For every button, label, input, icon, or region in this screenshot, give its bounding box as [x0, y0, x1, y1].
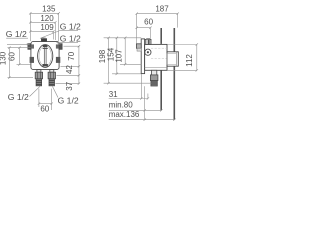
svg-text:120: 120 — [40, 14, 54, 23]
dim 198 — [98, 37, 110, 85]
dim 60 left — [7, 47, 20, 66]
right screw — [56, 57, 60, 63]
label G 1/2 bottom-left — [8, 86, 40, 102]
right dim column ext lines — [56, 46, 80, 83]
dim 130 left — [0, 47, 11, 79]
dim 60 side — [136, 18, 154, 39]
svg-text:60: 60 — [144, 18, 153, 27]
svg-text:37: 37 — [65, 81, 74, 90]
dim 109 — [29, 23, 54, 40]
svg-text:135: 135 — [42, 4, 56, 13]
flange side — [141, 39, 144, 74]
cartridge oval — [38, 45, 53, 68]
dim 135 — [29, 4, 60, 41]
svg-text:187: 187 — [155, 5, 169, 14]
label G 1/2 top-right upper — [40, 21, 81, 38]
dim 112 — [167, 43, 198, 71]
bottom stub side — [150, 70, 158, 86]
nose — [167, 52, 178, 66]
svg-text:max.136: max.136 — [109, 110, 140, 119]
dim max.136 — [109, 110, 176, 121]
svg-text:G 1/2: G 1/2 — [58, 95, 79, 105]
svg-text:112: 112 — [185, 54, 194, 67]
bottom dim 60 — [38, 89, 53, 114]
bottom port right — [48, 70, 55, 86]
front port bracket — [136, 44, 141, 51]
dim chain right 70/42/37 — [65, 45, 80, 91]
label G 1/2 bottom-right — [53, 87, 79, 106]
svg-text:109: 109 — [40, 23, 54, 32]
svg-text:60: 60 — [40, 105, 49, 114]
label G 1/2 top-left — [6, 29, 30, 45]
dim 107 — [115, 37, 127, 66]
svg-text:130: 130 — [0, 51, 8, 65]
dim min.80 — [109, 101, 163, 112]
cartridge stem — [43, 45, 48, 67]
left side dim exts — [104, 38, 152, 83]
label G 1/2 top-right lower — [57, 33, 81, 44]
dim 120 — [29, 14, 56, 40]
dim 154 — [106, 37, 118, 75]
svg-text:G 1/2: G 1/2 — [6, 29, 27, 39]
top port hex — [41, 38, 46, 42]
barrel — [145, 44, 167, 70]
bottom port left — [35, 70, 42, 86]
svg-text:60: 60 — [7, 52, 16, 61]
wall line back — [173, 28, 175, 120]
cap screw circle — [145, 49, 151, 55]
plate — [31, 41, 59, 69]
flange ext lines down — [141, 74, 144, 120]
svg-text:G 1/2: G 1/2 — [60, 21, 81, 31]
wall line front — [160, 28, 162, 110]
left screw — [30, 57, 34, 63]
dim 187 — [136, 5, 179, 44]
left port stub — [28, 44, 34, 50]
svg-text:107: 107 — [115, 49, 124, 63]
right port stub — [56, 44, 62, 50]
top stub side — [145, 38, 151, 44]
svg-text:42: 42 — [65, 65, 74, 74]
svg-text:70: 70 — [67, 51, 76, 60]
svg-text:min.80: min.80 — [109, 101, 134, 110]
svg-text:31: 31 — [109, 90, 118, 99]
svg-text:G 1/2: G 1/2 — [60, 33, 81, 43]
svg-text:G 1/2: G 1/2 — [8, 92, 29, 102]
dim 31 — [109, 90, 149, 100]
left dim column ext lines — [8, 48, 34, 78]
